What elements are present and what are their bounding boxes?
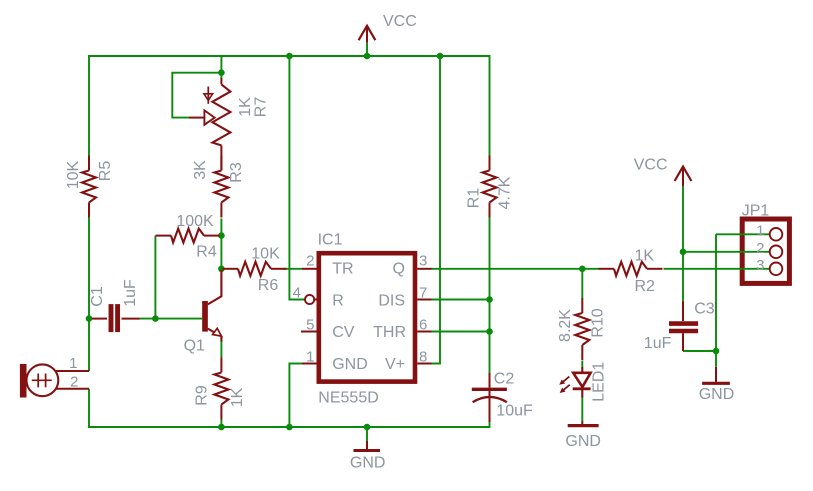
wire VCC branch to JP1 pin2 bbox=[683, 251, 770, 253]
svg-text:THR: THR bbox=[373, 324, 406, 341]
resistor R9 1K bbox=[220, 358, 222, 373]
microphone (electret) bbox=[20, 364, 27, 398]
supply VCC right bbox=[675, 167, 692, 181]
node left rail C1 junction bbox=[86, 315, 93, 322]
svg-text:DIS: DIS bbox=[378, 292, 405, 309]
IC1 pin 5 CV stub bbox=[301, 331, 317, 333]
wire 555 THR pin6 to R1 node bbox=[431, 331, 490, 333]
wire left rail VCC to R5 bbox=[88, 56, 90, 156]
wire R6 to 555 TR pin2 bbox=[284, 268, 303, 270]
node GND symbol junction bbox=[364, 424, 371, 431]
wire R10 to LED1 bbox=[581, 361, 583, 368]
wire 555 GND pin1 to ground rail bbox=[289, 364, 302, 428]
IC1 pin 6 THR stub bbox=[417, 331, 431, 333]
wire LED1 to GND bbox=[581, 398, 583, 422]
wire R10 top bbox=[581, 269, 583, 298]
resistor R1 4.7K bbox=[489, 156, 491, 171]
wire mic pin2 to ground rail bbox=[88, 389, 90, 427]
svg-text:8.2K: 8.2K bbox=[557, 309, 574, 342]
svg-text:R10: R10 bbox=[590, 308, 607, 337]
capacitor C3 1uF bbox=[682, 301, 684, 321]
svg-text:3: 3 bbox=[419, 253, 427, 270]
svg-text:1K: 1K bbox=[237, 97, 254, 117]
resistor R3 3K bbox=[220, 156, 222, 171]
op-amp/timer IC1 NE555D box bbox=[319, 253, 415, 381]
svg-text:7: 7 bbox=[419, 285, 427, 302]
IC1 pin 4 R stub (inverted) bbox=[305, 295, 314, 304]
svg-text:GND: GND bbox=[332, 356, 368, 373]
node R4/R3 junction bbox=[218, 232, 225, 239]
node C3/JP1-pin1 GND junction bbox=[713, 348, 720, 355]
svg-text:R3: R3 bbox=[228, 162, 245, 183]
wire VCC right vertical to C3 bbox=[682, 186, 684, 301]
LED LED1 bbox=[581, 367, 583, 398]
svg-text:1K: 1K bbox=[635, 248, 655, 265]
svg-text:JP1: JP1 bbox=[742, 202, 770, 219]
wire bottom ground rail bbox=[88, 426, 490, 428]
JP1 pin 2 bbox=[770, 246, 783, 259]
resistor R4 100K bbox=[156, 235, 172, 237]
node C1/R4/Q1-base junction bbox=[152, 315, 159, 322]
wire GND node stem bbox=[715, 351, 717, 367]
svg-text:R5: R5 bbox=[97, 161, 114, 182]
wire 555 V+ pin8 to top rail bbox=[431, 56, 440, 364]
resistor R5 10K bbox=[88, 156, 90, 171]
svg-text:4: 4 bbox=[293, 285, 301, 302]
IC1 pin 2 TR stub bbox=[302, 268, 317, 270]
svg-text:1: 1 bbox=[69, 355, 77, 372]
node 555-GND ground junction bbox=[286, 424, 293, 431]
svg-text:5: 5 bbox=[306, 317, 314, 334]
svg-text:R: R bbox=[332, 292, 344, 309]
svg-text:1uF: 1uF bbox=[122, 279, 139, 307]
svg-text:2: 2 bbox=[70, 373, 78, 390]
svg-text:3: 3 bbox=[756, 257, 764, 274]
svg-text:100K: 100K bbox=[176, 213, 214, 230]
svg-text:8: 8 bbox=[419, 349, 427, 366]
svg-text:Q1: Q1 bbox=[184, 338, 205, 355]
ground center bbox=[366, 441, 368, 449]
wire R2 to JP1 pin3 bbox=[664, 268, 770, 270]
resistor R6 10K bbox=[223, 268, 239, 270]
wire C1 right to Q1 base bbox=[139, 318, 202, 320]
wire GND center stem bbox=[366, 427, 368, 441]
svg-text:LED1: LED1 bbox=[590, 362, 607, 402]
svg-text:10K: 10K bbox=[251, 246, 280, 263]
svg-text:VCC: VCC bbox=[634, 157, 668, 174]
node THR/R1 junction bbox=[486, 328, 493, 335]
IC1 pin 1 GND stub bbox=[302, 363, 317, 365]
node VCC top junction bbox=[364, 53, 371, 60]
wire R1 to C2 bbox=[489, 218, 491, 374]
svg-text:R1: R1 bbox=[466, 188, 483, 209]
svg-text:R9: R9 bbox=[194, 385, 211, 406]
svg-text:GND: GND bbox=[565, 433, 601, 450]
resistor R10 8.2K bbox=[581, 298, 583, 313]
node VCC/JP1-pin2 junction bbox=[680, 249, 687, 256]
wire R7 top branch bbox=[220, 56, 222, 78]
wire top VCC rail bbox=[88, 55, 490, 57]
node R6/Q1 collector junction bbox=[218, 266, 225, 273]
svg-text:10K: 10K bbox=[65, 160, 82, 189]
JP1 pin 1 bbox=[770, 228, 783, 241]
svg-text:1K: 1K bbox=[229, 387, 246, 407]
svg-text:C3: C3 bbox=[694, 301, 715, 318]
svg-text:R4: R4 bbox=[196, 244, 217, 261]
svg-text:2: 2 bbox=[756, 240, 764, 257]
wire Q1 emitter to R9 bbox=[220, 341, 222, 358]
svg-text:3K: 3K bbox=[192, 160, 209, 180]
wire R7 wiper loop bbox=[172, 73, 221, 118]
node Q/R10 junction bbox=[579, 266, 586, 273]
svg-text:R7: R7 bbox=[253, 97, 270, 118]
svg-text:2: 2 bbox=[306, 253, 314, 270]
ground LED1 bbox=[581, 421, 583, 424]
JP1 pin 3 bbox=[770, 263, 783, 276]
wire left rail R5 to mic pin1 bbox=[88, 218, 90, 372]
svg-text:Q: Q bbox=[393, 261, 405, 278]
node reset rail junction bbox=[286, 53, 293, 60]
wire 555 DIS pin7 to R1 node bbox=[431, 299, 490, 301]
resistor R2 1K bbox=[599, 268, 615, 270]
svg-text:C2: C2 bbox=[494, 371, 515, 388]
wire VCC to 555 reset pin4 bbox=[289, 56, 305, 300]
capacitor C1 1uF bbox=[92, 318, 107, 320]
svg-text:VCC: VCC bbox=[383, 13, 417, 30]
svg-text:R6: R6 bbox=[258, 277, 279, 294]
svg-text:6: 6 bbox=[419, 317, 427, 334]
wire R4 left drop to C1 node bbox=[154, 236, 156, 319]
svg-text:CV: CV bbox=[332, 324, 355, 341]
IC1 pin 8 V+ stub bbox=[417, 363, 431, 365]
node V+ rail junction bbox=[437, 53, 444, 60]
IC1 pin 7 DIS stub bbox=[417, 299, 431, 301]
svg-text:4.7K: 4.7K bbox=[497, 176, 514, 209]
svg-text:GND: GND bbox=[699, 386, 735, 403]
svg-text:10uF: 10uF bbox=[496, 403, 533, 420]
svg-text:TR: TR bbox=[332, 261, 353, 278]
svg-text:1uF: 1uF bbox=[644, 335, 672, 352]
wire C2 bottom to ground rail bbox=[489, 422, 491, 427]
svg-text:1: 1 bbox=[306, 349, 314, 366]
svg-text:R2: R2 bbox=[635, 278, 656, 295]
wire R9 bottom to ground rail bbox=[220, 419, 222, 428]
supply VCC top bbox=[359, 26, 376, 40]
wire JP1 pin1 down to GND node bbox=[716, 234, 770, 351]
capacitor C2 10uF (polarized) bbox=[489, 373, 491, 388]
wire 555 Q pin3 to R2 bbox=[431, 268, 599, 270]
node R9 ground junction bbox=[218, 424, 225, 431]
svg-text:C1: C1 bbox=[89, 286, 106, 307]
ground right (C3/JP1) bbox=[715, 367, 717, 382]
svg-text:V+: V+ bbox=[385, 356, 405, 373]
wire top rail to R1 bbox=[489, 56, 491, 156]
wire C3 bottom to GND node bbox=[683, 350, 716, 352]
svg-text:IC1: IC1 bbox=[318, 232, 343, 249]
svg-text:1: 1 bbox=[756, 223, 764, 240]
node DIS/R1 junction bbox=[486, 296, 493, 303]
wire R3 to R4/R6 junctions bbox=[220, 219, 222, 270]
IC1 pin 3 Q stub bbox=[417, 268, 431, 270]
connector JP1 header bbox=[742, 219, 789, 283]
svg-text:GND: GND bbox=[350, 455, 386, 472]
trimmer R7 1K bbox=[220, 78, 222, 84]
node R7 wiper loop junction bbox=[218, 69, 225, 76]
transistor Q1 (NPN) bbox=[202, 301, 208, 332]
svg-text:NE555D: NE555D bbox=[318, 390, 378, 407]
